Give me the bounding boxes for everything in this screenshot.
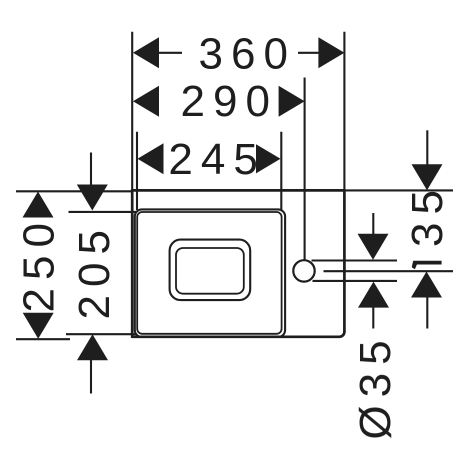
arrow 205 top (77, 185, 108, 211)
svg-text:360: 360 (199, 29, 296, 78)
svg-text:205: 205 (70, 222, 119, 319)
wire 205 top arrow tail (90, 153, 92, 187)
svg-text:35: 35 (403, 182, 452, 247)
wire 205 top extension (69, 211, 137, 213)
arrow d35 top (358, 234, 389, 260)
wire 360 dimension stubs (159, 52, 182, 54)
svg-text:250: 250 (15, 215, 64, 312)
wire hole center line (324, 270, 454, 272)
arrow 250 top (23, 192, 54, 218)
wire hole bottom tangent (313, 280, 398, 282)
arrow 290 left (133, 86, 159, 117)
basin box outer outline (135, 209, 285, 337)
plate right edge (343, 189, 346, 332)
arrow 245 left (138, 143, 164, 174)
arrow 205 bottom (77, 334, 108, 360)
label 135 digit 1 (custom rotated glyph) (412, 261, 442, 270)
wire d35 bottom arrow tail (372, 306, 374, 329)
wire extension line 245 right (280, 132, 282, 210)
svg-text:Ø35: Ø35 (351, 332, 400, 439)
arrow 360 right (318, 37, 344, 68)
wire extension line right above plate (343, 32, 345, 191)
wire 135 top extension (344, 189, 453, 191)
arrow 290 right (279, 86, 305, 117)
arrow 250 bottom (23, 313, 54, 339)
basin box inner outline (137, 212, 281, 334)
wire hole top tangent (312, 259, 398, 261)
plate left edge (131, 189, 134, 338)
bowl outer outline (170, 240, 251, 301)
wire extension line 290 right to hole (304, 78, 306, 260)
svg-text:290: 290 (181, 77, 278, 126)
arrow 360 left (133, 37, 159, 68)
wire d35 top arrow tail (372, 213, 374, 236)
wire extension line left above plate (131, 32, 133, 191)
arrow 135 top (412, 164, 443, 190)
wire 250 top extension (16, 190, 132, 192)
wire 205 bottom extension (66, 333, 137, 335)
plate top edge (131, 189, 344, 192)
wire 205 bottom arrow tail (90, 359, 92, 394)
wire 250 bottom extension (16, 338, 70, 340)
arrow 135 bottom (411, 272, 442, 298)
svg-text:245: 245 (168, 135, 265, 184)
plate bottom edge (132, 331, 344, 337)
wire extension line 245 left (136, 132, 138, 210)
wire 135 top arrow tail (426, 130, 428, 166)
wire 135 bottom arrow tail (426, 296, 428, 329)
faucet hole circle d35 (293, 260, 314, 281)
arrow 245 right (256, 144, 281, 173)
bowl inner outline (176, 248, 244, 294)
arrow d35 bottom (358, 282, 389, 308)
